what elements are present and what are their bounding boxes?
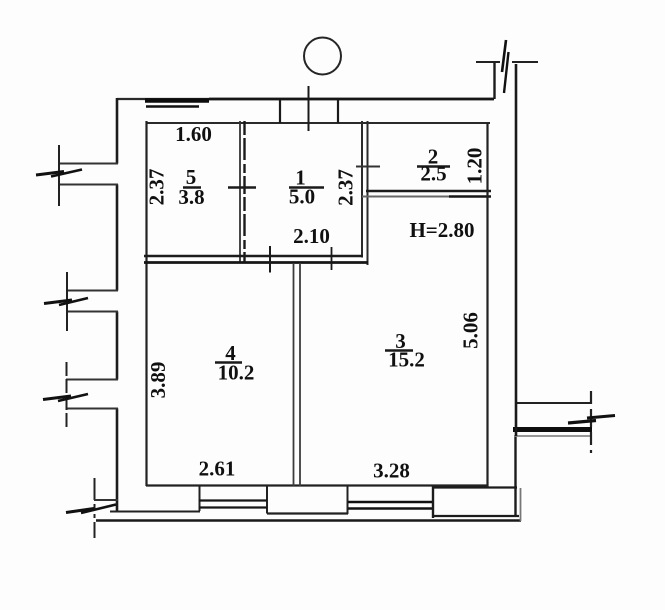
svg-text:3.28: 3.28: [373, 459, 410, 483]
svg-text:2.37: 2.37: [334, 169, 358, 206]
svg-text:2.37: 2.37: [145, 169, 169, 206]
svg-text:5.0: 5.0: [289, 185, 315, 209]
svg-text:2.61: 2.61: [199, 457, 236, 481]
svg-text:1.20: 1.20: [463, 148, 487, 185]
svg-text:15.2: 15.2: [388, 348, 425, 372]
svg-text:5.06: 5.06: [459, 312, 483, 349]
svg-text:2.10: 2.10: [293, 224, 330, 248]
svg-text:3.8: 3.8: [178, 185, 204, 209]
svg-text:H=2.80: H=2.80: [409, 218, 474, 242]
svg-text:2.5: 2.5: [420, 162, 446, 186]
svg-text:1.60: 1.60: [175, 122, 212, 146]
svg-text:10.2: 10.2: [218, 361, 255, 385]
svg-text:3.89: 3.89: [146, 362, 170, 399]
